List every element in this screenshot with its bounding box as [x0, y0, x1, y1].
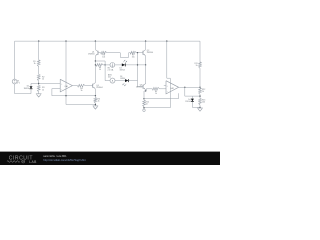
op-amp OA1 [60, 79, 72, 92]
LED D2 [122, 63, 125, 66]
wire OA1 minus loop [52, 88, 60, 90]
node chain junction at Q1 emitter [95, 64, 96, 65]
node output divider junction [199, 94, 201, 98]
wire Q3 base stub [138, 86, 144, 88]
svg-text:http://circuitlab.com/c425s7bq: http://circuitlab.com/c425s7bqq7uhbt [43, 158, 86, 162]
resistor R4 base [78, 84, 86, 87]
terminal node out [143, 107, 145, 109]
svg-text:1k: 1k [98, 101, 100, 103]
voltage source V1 [12, 79, 17, 84]
svg-text:1k: 1k [81, 90, 83, 92]
node OA2 supply rail junction [166, 40, 167, 41]
svg-text:OA1: OA1 [65, 85, 68, 88]
resistor R9 [152, 87, 159, 90]
wire diode top to divider junction [31, 83, 39, 85]
node Q2 rail junction [145, 40, 146, 41]
wire OA2 plus stub [164, 84, 166, 86]
CircuitLab logo [7, 156, 37, 164]
wire column to output row [199, 68, 201, 87]
resistor R3 [37, 86, 40, 92]
wire Q1 base [98, 52, 101, 54]
resistor R1 [37, 60, 40, 67]
svg-text:1N914: 1N914 [24, 88, 30, 90]
wire OA2 supply drop [166, 41, 168, 78]
svg-text:2.5 mA: 2.5 mA [108, 69, 114, 72]
resistor R10 [143, 99, 145, 101]
svg-text:2N3904: 2N3904 [88, 54, 94, 56]
diode D1 [30, 89, 32, 93]
ground R6 [94, 103, 96, 106]
wire divider column top [38, 41, 40, 60]
wire Q4 emitter down [94, 89, 96, 96]
node OA1 V+ rail junction [65, 40, 66, 41]
wire Q3 emitter down [144, 90, 146, 92]
transistor Q1 [97, 51, 99, 55]
svg-text:10k: 10k [132, 57, 135, 59]
wire output branch down [184, 87, 186, 96]
wire parallel rung [95, 60, 105, 62]
wire OA1 supply crossing [65, 41, 67, 104]
svg-text:1N914: 1N914 [120, 70, 125, 72]
wire right column from rail [199, 41, 201, 62]
wire to Q2 base [136, 52, 143, 54]
wire plus input OA1 [39, 83, 61, 85]
resistor R6 emitter [94, 96, 96, 98]
ground divider [38, 92, 40, 94]
wire long feedback row [144, 98, 178, 100]
svg-text:1k: 1k [202, 91, 204, 93]
wire Q2 emitter down to chain [145, 56, 147, 65]
wire Q3 emitter corner [145, 90, 147, 92]
wire R1 to R2 [38, 67, 40, 75]
svg-text:1N914: 1N914 [120, 78, 125, 80]
wire D3 to branch vertical [122, 80, 125, 82]
wire branch down to AM1 [104, 61, 106, 81]
ground right column [199, 105, 201, 108]
footer bar [0, 152, 220, 165]
resistor R2 [37, 75, 40, 81]
wire Q1 emitter down [94, 56, 96, 65]
wire branch down from base net [137, 53, 139, 87]
svg-text:sammichu / ece 801: sammichu / ece 801 [43, 154, 67, 158]
svg-text:2N3904: 2N3904 [147, 52, 153, 54]
resistor R13 [199, 99, 202, 105]
wire base net jog [107, 52, 121, 54]
svg-text:5k: 5k [196, 65, 198, 67]
svg-text:LAB: LAB [29, 160, 37, 164]
resistor R7 [129, 52, 131, 54]
wire top rail [15, 40, 200, 42]
node Q1 rail junction [95, 40, 96, 41]
wire OA2 output row [179, 86, 200, 88]
wire OA1 output [72, 85, 77, 87]
wire R9 to OA2 minus [160, 88, 166, 90]
op-amp OA2 [166, 81, 179, 94]
wire Q4 collector up [94, 65, 96, 83]
svg-text:10k: 10k [102, 57, 105, 59]
wire OA2 vminus bottom row [144, 107, 170, 109]
wire to Q4 base [85, 85, 93, 87]
transistor Q4 [92, 84, 94, 88]
svg-text:OA2: OA2 [170, 87, 173, 90]
wire OA1 vminus to ground net [66, 104, 95, 106]
wire AM1 to LED D3 [115, 80, 122, 82]
svg-text:2N3904: 2N3904 [136, 87, 142, 89]
wire emitter to R9 [146, 88, 152, 90]
transistor Q3 [142, 85, 144, 89]
wire V1 bottom to diode return [14, 84, 16, 94]
wire Q2 emitter node to Q3 collector [145, 65, 147, 84]
svg-text:50: 50 [146, 103, 148, 105]
wire Q1 collector [94, 41, 96, 49]
wire Q2 collector [145, 41, 147, 49]
wire IS1 to LED D2 [115, 64, 122, 66]
svg-text:1N914: 1N914 [185, 101, 190, 103]
LED D3 row [125, 79, 128, 82]
wire OA2 supply crossing [169, 78, 171, 108]
svg-text:100: 100 [202, 101, 205, 103]
svg-text:1k: 1k [42, 89, 44, 91]
resistor R8 chain [96, 64, 103, 67]
resistor R5 [101, 51, 107, 54]
svg-text:1k: 1k [34, 63, 36, 65]
resistor R12 [199, 86, 201, 89]
resistor R11 [199, 62, 202, 68]
wire chain to IS1 [103, 64, 110, 66]
node divider junction [38, 81, 40, 86]
wire left branch down to V1 [14, 41, 16, 79]
current source IS1 [110, 63, 115, 68]
ammeter AM1 [110, 78, 115, 83]
wire LED to Q2 emitter node [126, 64, 146, 66]
svg-text:1k: 1k [155, 93, 157, 95]
node rail junction A [38, 40, 39, 41]
svg-text:2N3904: 2N3904 [96, 87, 102, 89]
diode D4 [191, 96, 193, 99]
svg-text:1k: 1k [42, 79, 44, 81]
svg-text:50: 50 [99, 69, 101, 71]
transistor Q2 [142, 51, 144, 55]
